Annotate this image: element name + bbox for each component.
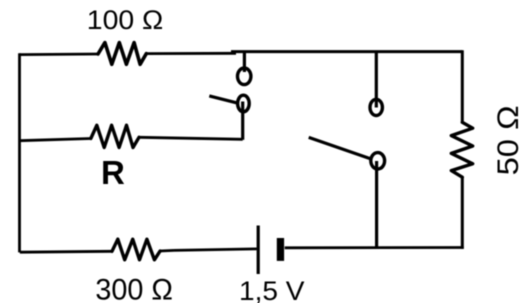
switch S1 upper wire: [243, 52, 246, 72]
label R: [101, 154, 125, 191]
svg-text:R: R: [101, 154, 125, 191]
svg-text:100 Ω: 100 Ω: [87, 4, 164, 35]
svg-text:1,5 V: 1,5 V: [239, 275, 305, 303]
switch S2 upper wire: [375, 52, 378, 108]
wire right vertical upper: [461, 50, 464, 122]
switch S2 upper contact circle: [370, 99, 382, 115]
switch S2 lower wire: [375, 161, 378, 248]
resistor 50 ohm: [451, 122, 472, 177]
label 300 ohm: [95, 275, 172, 303]
resistor 300 ohm: [112, 239, 160, 260]
switch S1 upper contact circle: [238, 68, 251, 85]
wire bottom battery-left segment: [174, 249, 257, 251]
resistor R: [91, 125, 139, 147]
wire middle horizontal right lead: [139, 137, 243, 139]
wire bottom-right segment: [285, 246, 464, 249]
wire top-middle segment: [146, 52, 236, 55]
switch S1 lower contact circle: [238, 95, 250, 112]
wire left vertical: [18, 53, 21, 252]
wire top-right segment: [231, 50, 462, 53]
svg-text:300 Ω: 300 Ω: [95, 275, 172, 303]
wire middle horizontal left lead: [20, 139, 91, 141]
wire bottom-left segment: [20, 250, 112, 254]
label 50 ohm: [492, 105, 524, 175]
switch S2 lower contact circle: [371, 153, 385, 169]
svg-text:50 Ω: 50 Ω: [492, 105, 524, 175]
switch S1 arm: [209, 96, 238, 103]
wire bottom resistor right lead: [160, 249, 174, 252]
switch S1 lower wire: [241, 102, 244, 140]
battery positive plate: [257, 226, 260, 275]
wire top-left segment: [20, 53, 99, 56]
label 1,5 V: [239, 275, 305, 303]
wire right vertical lower: [461, 177, 464, 249]
switch S2 arm: [309, 137, 373, 159]
battery negative plate: [277, 238, 284, 261]
resistor 100 ohm: [98, 43, 146, 65]
label 100 ohm: [87, 4, 164, 35]
